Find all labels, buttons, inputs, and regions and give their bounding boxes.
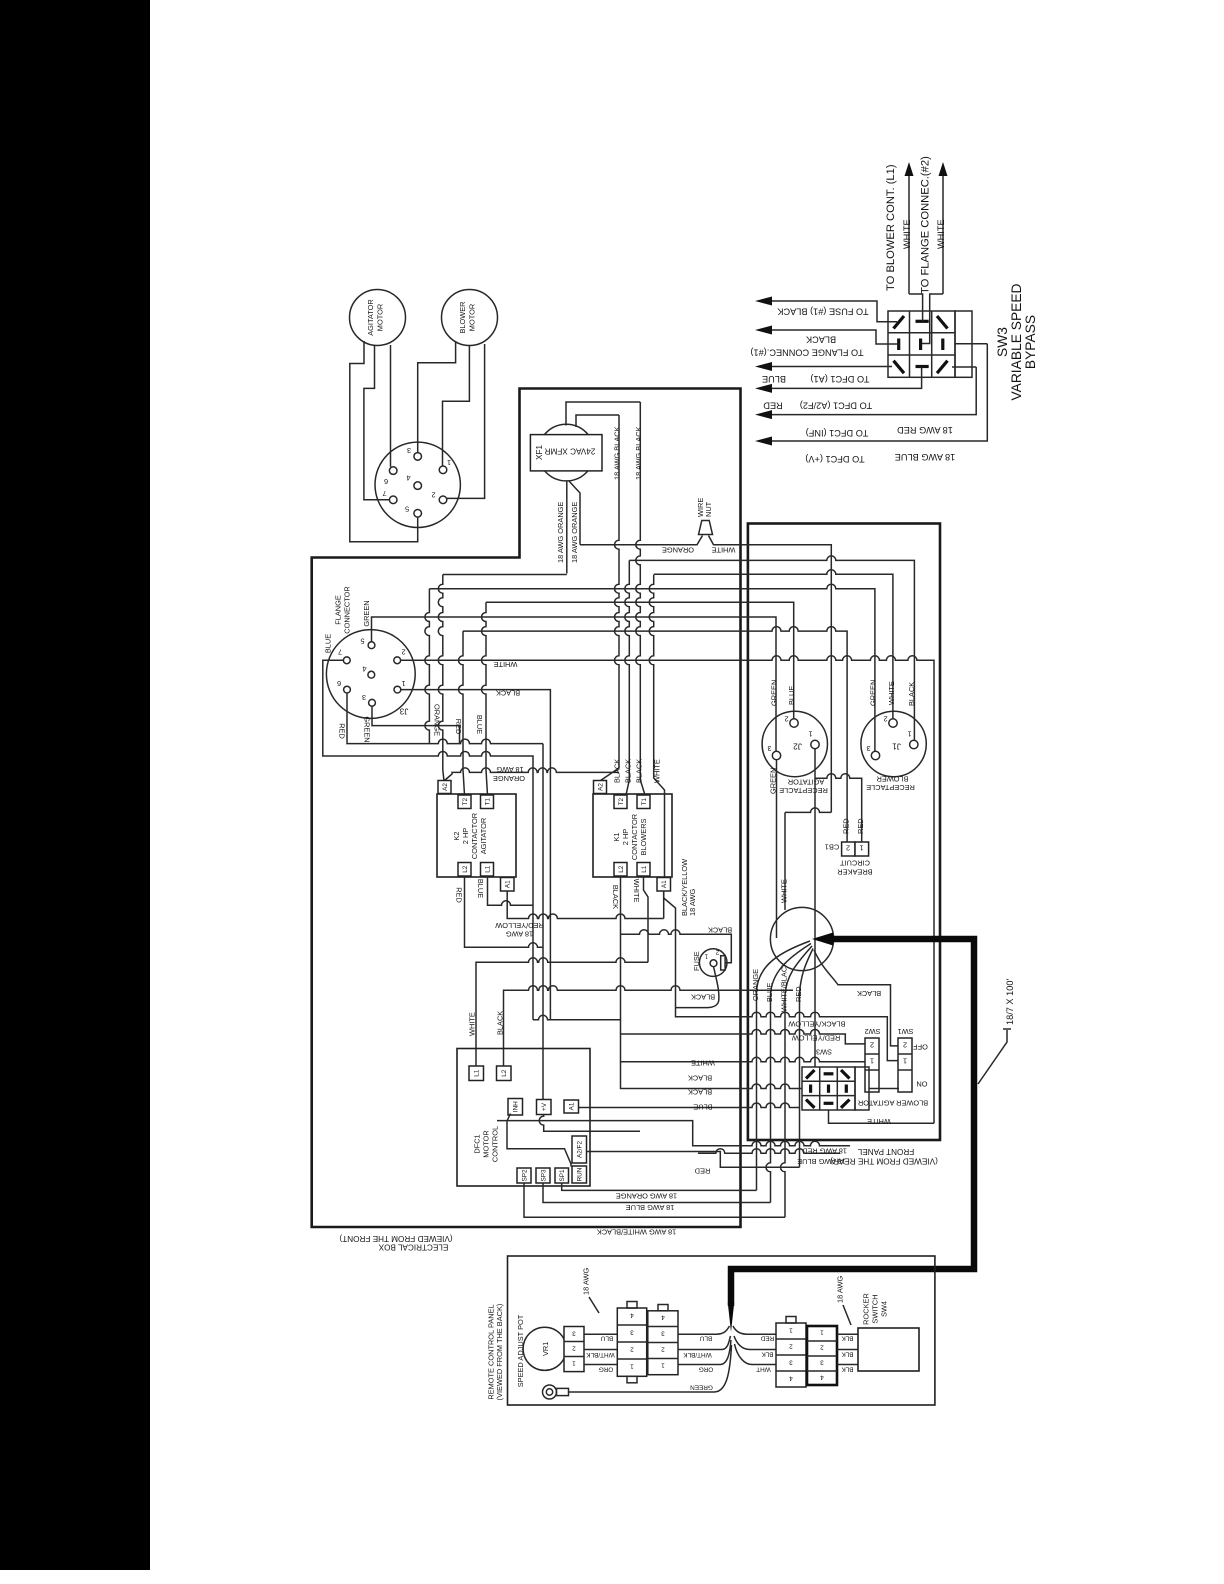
svg-text:GREEN: GREEN xyxy=(868,680,877,706)
vertical feed K2 T1 xyxy=(482,602,488,795)
svg-text:1: 1 xyxy=(789,1327,793,1334)
svg-text:WHITE: WHITE xyxy=(652,759,661,783)
svg-text:BLK: BLK xyxy=(841,1351,854,1358)
wire J3 pin7 blue xyxy=(323,660,533,1020)
svg-text:+V: +V xyxy=(541,1102,548,1111)
svg-text:MOTOR: MOTOR xyxy=(468,304,477,331)
svg-text:GREEN: GREEN xyxy=(363,716,372,742)
DFC1 terminal RUN xyxy=(572,1166,587,1183)
svg-text:T2: T2 xyxy=(462,798,469,806)
wire SP1 orange h1190 xyxy=(562,1183,757,1190)
wires connector2 to SW4 xyxy=(837,1334,858,1364)
wire agitator to pin5 xyxy=(350,341,418,542)
pot VR1 xyxy=(523,1327,584,1372)
svg-text:BLACK: BLACK xyxy=(805,335,836,345)
DFC1 terminal L1 xyxy=(469,1066,484,1081)
wire h1153 xyxy=(698,1149,840,1154)
svg-text:3: 3 xyxy=(362,693,366,702)
svg-text:WHT: WHT xyxy=(756,1366,771,1373)
motor connector plug xyxy=(375,442,460,527)
K1 feed vertical black 2 xyxy=(625,560,630,795)
svg-text:RECEPTACLE: RECEPTACLE xyxy=(779,786,828,795)
svg-text:7: 7 xyxy=(382,489,386,498)
svg-text:1: 1 xyxy=(704,952,708,959)
svg-text:ORG: ORG xyxy=(699,1366,714,1373)
K2 terminal A2 xyxy=(438,781,451,794)
K2 terminal L2 xyxy=(458,863,471,877)
K1 feed vertical black 3 xyxy=(636,402,645,795)
svg-text:RED: RED xyxy=(760,1335,774,1342)
svg-text:WHITE/BLACK: WHITE/BLACK xyxy=(779,962,788,1012)
wire agitator to pin7 xyxy=(364,345,390,500)
wire J3 pin5 green up xyxy=(372,617,777,752)
wire J2 pin1 down xyxy=(814,749,816,1067)
svg-text:3: 3 xyxy=(661,1330,665,1337)
leader 18/7 xyxy=(978,1029,1011,1084)
svg-text:BLACK: BLACK xyxy=(857,989,881,998)
DFC1 terminal SP2 xyxy=(517,1168,531,1183)
svg-text:18 AWG RED: 18 AWG RED xyxy=(897,425,953,435)
switch SW3 (top detail) xyxy=(888,311,972,377)
svg-text:BLK: BLK xyxy=(841,1366,854,1373)
XF1 orange lead 2 xyxy=(569,481,581,545)
svg-text:L1: L1 xyxy=(474,1069,481,1077)
svg-text:RED: RED xyxy=(454,719,463,735)
switch SW3 (bottom) xyxy=(802,1067,869,1110)
svg-text:RED/YELLOW: RED/YELLOW xyxy=(792,1034,840,1043)
cable fan black wire right xyxy=(814,950,898,1046)
svg-text:WHT/BLK: WHT/BLK xyxy=(683,1351,712,1358)
wire orange jumper K2A2 to K1A2 xyxy=(445,768,620,781)
wires VR1 to connector xyxy=(584,1334,617,1364)
XF1 orange lead 1 xyxy=(566,481,568,574)
DFC1 terminal +V xyxy=(537,1100,552,1115)
svg-text:WHITE: WHITE xyxy=(936,219,946,249)
svg-text:L2: L2 xyxy=(501,1069,508,1077)
svg-text:ORG: ORG xyxy=(599,1366,614,1373)
svg-text:VR1: VR1 xyxy=(541,1342,550,1356)
wire J3 pin6 red xyxy=(347,693,543,744)
wire A2/F2 red xyxy=(587,1152,800,1168)
svg-text:RED: RED xyxy=(338,723,347,739)
K1 terminal T2 xyxy=(614,795,627,809)
svg-text:SW3: SW3 xyxy=(816,1048,832,1057)
svg-text:6: 6 xyxy=(384,477,388,486)
XF1 secondary black wire 2 xyxy=(576,415,619,427)
svg-text:ORANGE: ORANGE xyxy=(751,969,760,1001)
left arrow TO DFC1 (A2/F2) xyxy=(771,367,922,388)
svg-text:18 AWG BLACK: 18 AWG BLACK xyxy=(612,426,621,480)
svg-text:5: 5 xyxy=(360,637,364,646)
svg-text:BLACK: BLACK xyxy=(907,682,916,706)
svg-text:AGITATOR: AGITATOR xyxy=(479,818,488,855)
DFC1 terminal L2 xyxy=(497,1066,512,1081)
svg-text:4: 4 xyxy=(362,665,366,674)
svg-text:FUSE: FUSE xyxy=(692,951,701,971)
svg-text:BLUE: BLUE xyxy=(693,1103,712,1112)
wire K1 L1 white down xyxy=(644,876,649,962)
wire black h560 to J1 pin1 xyxy=(629,556,914,740)
DFC1 terminal A1 xyxy=(564,1100,579,1113)
svg-text:MOTOR: MOTOR xyxy=(482,1130,491,1157)
svg-text:L2: L2 xyxy=(618,865,625,873)
svg-text:WHITE: WHITE xyxy=(902,219,912,249)
svg-text:(VIEWED FROM THE FRONT): (VIEWED FROM THE FRONT) xyxy=(339,1234,452,1243)
cable taper tip xyxy=(728,1303,734,1332)
red wire +V vertical xyxy=(542,744,544,1100)
left arrow TO DFC1 (+V) xyxy=(771,344,987,441)
svg-text:BREAKER: BREAKER xyxy=(837,868,872,877)
svg-text:WHITE: WHITE xyxy=(691,1059,715,1068)
svg-text:BLUE: BLUE xyxy=(476,879,485,898)
svg-text:A2: A2 xyxy=(442,783,449,791)
svg-text:WHITE: WHITE xyxy=(468,1012,477,1036)
svg-text:TO FUSE (#1) BLACK: TO FUSE (#1) BLACK xyxy=(777,307,869,317)
front panel box xyxy=(748,524,940,1141)
wire to panel h631 xyxy=(463,627,847,842)
vertical feed K2 A2 xyxy=(438,575,444,782)
svg-text:RED: RED xyxy=(842,818,851,834)
svg-text:BLU: BLU xyxy=(600,1335,613,1342)
svg-text:RECEPTACLE: RECEPTACLE xyxy=(866,783,915,792)
svg-text:GREEN: GREEN xyxy=(690,1384,713,1391)
svg-text:TO DFC1 (A2/F2): TO DFC1 (A2/F2) xyxy=(800,401,872,411)
svg-text:3: 3 xyxy=(789,1359,793,1366)
svg-text:18 AWG BLUE: 18 AWG BLUE xyxy=(797,1157,846,1166)
svg-text:FRONT PANEL: FRONT PANEL xyxy=(857,1147,914,1156)
svg-text:WHITE: WHITE xyxy=(494,660,518,669)
contactor K1 xyxy=(593,794,672,877)
svg-text:3: 3 xyxy=(767,744,771,753)
svg-text:TO FLANGE CONNEC.(#2): TO FLANGE CONNEC.(#2) xyxy=(920,156,932,294)
svg-text:18 AWG BLACK: 18 AWG BLACK xyxy=(634,426,643,480)
svg-text:WHITE: WHITE xyxy=(712,546,736,555)
svg-text:TO BLOWER CONT. (L1): TO BLOWER CONT. (L1) xyxy=(885,164,897,291)
svg-text:2 HP: 2 HP xyxy=(461,828,470,845)
svg-text:BLACK/YELLOW: BLACK/YELLOW xyxy=(788,1020,845,1029)
svg-text:18 AWG: 18 AWG xyxy=(506,930,533,939)
electrical box outline xyxy=(312,389,741,1228)
svg-text:SWITCH: SWITCH xyxy=(871,1294,880,1323)
svg-text:2: 2 xyxy=(870,1041,874,1050)
svg-text:RED: RED xyxy=(794,986,803,1002)
svg-text:WHITE: WHITE xyxy=(632,879,641,903)
svg-text:T1: T1 xyxy=(641,798,648,806)
vertical feed K2 T2 xyxy=(459,631,465,795)
svg-text:CONNECTOR: CONNECTOR xyxy=(342,586,351,634)
svg-text:BLACK: BLACK xyxy=(611,885,620,909)
svg-text:BLUE: BLUE xyxy=(323,634,332,653)
svg-text:1: 1 xyxy=(859,844,863,853)
K1 feed vertical black 1 xyxy=(601,415,620,781)
K2 terminal T1 xyxy=(481,795,494,809)
receptacle J1 xyxy=(861,711,926,776)
motor control DFC1 xyxy=(457,1049,590,1187)
svg-text:K2: K2 xyxy=(452,831,461,840)
svg-text:7: 7 xyxy=(338,648,342,657)
svg-text:2: 2 xyxy=(661,1346,665,1353)
svg-text:4: 4 xyxy=(661,1314,665,1321)
remote control panel box xyxy=(508,1256,935,1405)
svg-text:BLUE: BLUE xyxy=(762,374,786,384)
svg-text:4: 4 xyxy=(406,474,410,483)
svg-text:SP1: SP1 xyxy=(559,1169,566,1182)
svg-text:RED: RED xyxy=(763,401,783,411)
switch SW1 xyxy=(898,1038,912,1092)
svg-text:SW2: SW2 xyxy=(864,1027,880,1036)
svg-text:18 AWG: 18 AWG xyxy=(496,765,523,774)
connector pair left half xyxy=(617,1302,646,1383)
blower motor M2 xyxy=(442,290,498,346)
svg-text:1: 1 xyxy=(907,730,911,739)
wire fuse bottom black xyxy=(676,967,719,1008)
svg-text:4: 4 xyxy=(630,1312,634,1319)
DFC1 terminal SP1 xyxy=(555,1168,569,1183)
wire K1 A1 black/yellow down xyxy=(664,891,898,1061)
svg-text:(VIEWED FROM THE BACK): (VIEWED FROM THE BACK) xyxy=(495,1304,504,1401)
svg-text:3: 3 xyxy=(820,1359,824,1366)
svg-text:TO FLANGE CONNEC.(#1): TO FLANGE CONNEC.(#1) xyxy=(750,348,863,358)
svg-text:J2: J2 xyxy=(793,742,802,751)
K1 terminal A1 xyxy=(657,878,671,892)
svg-text:L1: L1 xyxy=(485,865,492,873)
connector 2 right half xyxy=(807,1326,837,1385)
svg-text:CONTACTOR: CONTACTOR xyxy=(470,813,479,859)
wire orange xfmr to K2 coil xyxy=(443,574,567,576)
svg-text:5: 5 xyxy=(405,505,409,514)
svg-text:18 AWG ORANGE: 18 AWG ORANGE xyxy=(616,1192,677,1201)
agitator motor M1 xyxy=(350,290,406,346)
svg-text:BLOWER: BLOWER xyxy=(876,775,908,784)
svg-text:T2: T2 xyxy=(618,798,625,806)
K2 terminal L1 xyxy=(481,863,494,877)
connector pair right half xyxy=(648,1305,678,1375)
svg-text:SW3: SW3 xyxy=(995,327,1010,357)
vertical 429 drop xyxy=(425,589,430,744)
wire to panel h588 xyxy=(429,584,875,751)
svg-text:GREEN: GREEN xyxy=(769,680,778,706)
wires connector to cable xyxy=(678,1326,731,1365)
svg-text:1: 1 xyxy=(401,679,405,688)
svg-text:2: 2 xyxy=(883,715,887,724)
wire h1120 xyxy=(497,1121,850,1146)
svg-text:18 AWG WHITE/BLACK: 18 AWG WHITE/BLACK xyxy=(597,1228,676,1237)
svg-text:WHITE: WHITE xyxy=(867,1117,891,1126)
wire A1 blue h1107 xyxy=(579,1103,801,1108)
svg-text:2 HP: 2 HP xyxy=(621,829,630,846)
wire SP2 white/black h1217 xyxy=(524,1183,785,1217)
transformer XF1 xyxy=(530,424,602,481)
DFC1 terminal A2/F2 xyxy=(572,1136,587,1163)
K1 terminal T1 xyxy=(637,795,650,809)
svg-text:T1: T1 xyxy=(485,798,492,806)
svg-text:NUT: NUT xyxy=(704,501,713,517)
XF1 secondary black wire 1 xyxy=(566,402,640,426)
svg-text:A2/F2: A2/F2 xyxy=(577,1141,584,1158)
K1 feed vertical white xyxy=(649,575,664,877)
svg-text:BYPASS: BYPASS xyxy=(1023,315,1038,369)
svg-text:A2: A2 xyxy=(598,783,605,791)
svg-text:OFF: OFF xyxy=(913,1043,928,1052)
wire blower to pin1 xyxy=(443,346,470,467)
wire +V hook xyxy=(539,1115,640,1132)
svg-text:18 AWG: 18 AWG xyxy=(582,1268,591,1295)
svg-text:18 AWG ORANGE: 18 AWG ORANGE xyxy=(570,502,579,563)
up arrow 2 xyxy=(942,174,944,294)
wire arrow2 to sw3 xyxy=(922,294,943,344)
svg-text:3: 3 xyxy=(866,744,870,753)
svg-text:BLOWERS: BLOWERS xyxy=(639,818,648,855)
svg-text:TO DFC1 (A1): TO DFC1 (A1) xyxy=(810,374,869,384)
svg-text:1: 1 xyxy=(572,1360,576,1367)
svg-text:6: 6 xyxy=(337,679,341,688)
svg-text:ORANGE: ORANGE xyxy=(662,546,694,555)
svg-text:CONTACTOR: CONTACTOR xyxy=(630,814,639,860)
svg-text:RED: RED xyxy=(695,1167,711,1176)
svg-text:1: 1 xyxy=(661,1362,665,1369)
receptacle J2 xyxy=(762,711,827,776)
svg-text:CONTROL: CONTROL xyxy=(491,1126,500,1162)
svg-text:A1: A1 xyxy=(505,880,512,888)
wire h1020 xyxy=(533,1015,621,1020)
svg-text:WHITE: WHITE xyxy=(779,879,788,903)
svg-text:BLACK: BLACK xyxy=(635,759,644,783)
flange connector J3 xyxy=(326,630,415,719)
svg-text:2: 2 xyxy=(789,1343,793,1350)
svg-text:BLACK: BLACK xyxy=(708,926,732,935)
scan margin black bar xyxy=(0,0,150,1570)
svg-text:18 AWG ORANGE: 18 AWG ORANGE xyxy=(556,502,565,563)
svg-text:ELECTRICAL BOX: ELECTRICAL BOX xyxy=(378,1243,448,1252)
K2 terminal A1 xyxy=(501,878,515,892)
svg-text:AGITATOR: AGITATOR xyxy=(366,299,375,336)
svg-text:BLACK: BLACK xyxy=(688,1088,712,1097)
svg-text:24VAC XFMR: 24VAC XFMR xyxy=(545,447,596,456)
svg-text:BLACK: BLACK xyxy=(612,759,621,783)
svg-text:ORANGE: ORANGE xyxy=(493,774,525,783)
svg-text:4: 4 xyxy=(820,1374,824,1381)
wire K2 A1 / K1 A1 red-yellow xyxy=(507,891,664,919)
wire blower to pin3 xyxy=(418,341,456,453)
svg-text:2: 2 xyxy=(846,844,850,853)
wire K1 L2 black down xyxy=(621,876,803,1089)
wire sw3 row2 right xyxy=(869,1088,899,1090)
svg-text:RED: RED xyxy=(455,887,464,903)
svg-text:2: 2 xyxy=(572,1345,576,1352)
wire blower to pin2 xyxy=(447,344,485,498)
wire K2 L2 red down xyxy=(465,876,544,947)
svg-text:INH: INH xyxy=(513,1101,520,1112)
K1 terminal A2 xyxy=(594,781,607,794)
wire h574 right xyxy=(654,570,893,719)
svg-text:18 AWG RED: 18 AWG RED xyxy=(802,1147,847,1156)
svg-text:2: 2 xyxy=(903,1041,907,1050)
svg-text:18 AWG: 18 AWG xyxy=(688,889,697,916)
svg-text:1: 1 xyxy=(903,1057,907,1066)
connector 2 left half xyxy=(776,1317,806,1388)
left arrow TO DFC1 (A1) xyxy=(771,366,892,368)
left arrow TO FUSE xyxy=(771,301,897,322)
svg-text:SW1: SW1 xyxy=(897,1027,913,1036)
svg-text:1: 1 xyxy=(808,730,812,739)
svg-text:J3: J3 xyxy=(399,707,408,716)
svg-text:BLACK: BLACK xyxy=(624,759,633,783)
wire K2 L1 blue xyxy=(488,876,534,905)
svg-text:18 AWG: 18 AWG xyxy=(836,1276,845,1303)
left arrow TO DFC1 (INF) xyxy=(771,367,976,415)
svg-text:BLUE: BLUE xyxy=(475,715,484,734)
cable fan wires xyxy=(757,941,811,1190)
svg-text:2: 2 xyxy=(715,949,719,956)
fuse F1 xyxy=(699,949,727,977)
svg-text:ORANGE: ORANGE xyxy=(433,704,442,736)
svg-text:3: 3 xyxy=(407,446,411,455)
svg-text:BLK: BLK xyxy=(841,1335,854,1342)
wire SP3 blue h1202 xyxy=(543,1183,771,1203)
svg-text:1: 1 xyxy=(630,1363,634,1370)
circuit breaker CB1 xyxy=(842,842,869,856)
svg-text:BLK: BLK xyxy=(761,1351,774,1358)
svg-text:2: 2 xyxy=(431,491,435,500)
wire CB1-1 feed xyxy=(815,774,862,842)
svg-text:1: 1 xyxy=(447,458,451,467)
wire arrow1 to sw3 xyxy=(909,294,923,321)
svg-text:ON: ON xyxy=(916,1080,927,1089)
wire DFC1 L2 black xyxy=(504,986,794,1066)
svg-text:A1: A1 xyxy=(661,880,668,888)
svg-text:RUN: RUN xyxy=(577,1167,584,1181)
svg-text:GREEN: GREEN xyxy=(362,600,371,626)
svg-text:WHT/BLK: WHT/BLK xyxy=(586,1351,615,1358)
svg-text:BLACK: BLACK xyxy=(691,993,715,1002)
rocker switch SW4 xyxy=(858,1328,919,1371)
svg-text:2: 2 xyxy=(630,1346,634,1353)
svg-text:RED: RED xyxy=(856,818,865,834)
svg-text:MOTOR: MOTOR xyxy=(376,304,385,331)
svg-text:BLACK: BLACK xyxy=(496,689,520,698)
ground lug xyxy=(543,1385,569,1399)
DFC1 terminal INH xyxy=(508,1099,523,1116)
svg-text:L2: L2 xyxy=(462,865,469,873)
svg-text:BLACK: BLACK xyxy=(688,1074,712,1083)
contactor K2 xyxy=(437,794,516,877)
wire nut xyxy=(699,521,713,535)
svg-text:XF1: XF1 xyxy=(535,445,544,460)
wire DFC1 L1 white xyxy=(476,958,648,1066)
K1 terminal L2 xyxy=(614,863,627,877)
svg-text:CIRCUIT: CIRCUIT xyxy=(840,859,870,868)
svg-text:BLUE: BLUE xyxy=(765,983,774,1002)
DFC1 terminal SP3 xyxy=(536,1168,550,1183)
K2 terminal T2 xyxy=(458,795,471,809)
svg-text:ROCKER: ROCKER xyxy=(862,1293,871,1325)
svg-text:BLACK: BLACK xyxy=(496,1011,505,1035)
svg-text:2: 2 xyxy=(820,1344,824,1351)
cable 18/7 thick run xyxy=(731,939,974,1306)
svg-text:3: 3 xyxy=(572,1330,576,1337)
switch SW2 xyxy=(865,1038,879,1092)
K1 terminal L1 xyxy=(637,863,650,877)
svg-text:WHITE: WHITE xyxy=(887,681,896,705)
wire fuse top black xyxy=(621,930,732,963)
svg-text:18/7 X 100': 18/7 X 100' xyxy=(1005,979,1015,1025)
svg-text:BLU: BLU xyxy=(699,1335,712,1342)
svg-text:3: 3 xyxy=(630,1329,634,1336)
svg-text:K1: K1 xyxy=(612,832,621,841)
wire sw3 bottom stub white xyxy=(829,1110,935,1123)
wire nut Y split xyxy=(580,536,831,911)
svg-text:2: 2 xyxy=(784,715,788,724)
